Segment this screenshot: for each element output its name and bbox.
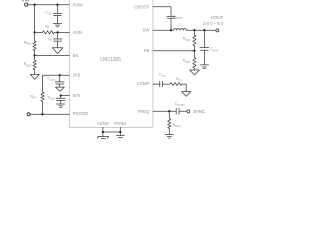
wire COMP bbox=[153, 83, 160, 85]
svg-text:AVIN: AVIN bbox=[73, 30, 82, 35]
wire FREQ bbox=[153, 110, 176, 112]
node PGND junction bbox=[119, 131, 121, 133]
svg-text:IN: IN bbox=[48, 12, 51, 16]
resistor REN1 bbox=[24, 40, 36, 50]
svg-text:C1: C1 bbox=[179, 78, 183, 82]
svg-text:CBOOT: CBOOT bbox=[134, 4, 149, 9]
ground PGND bbox=[116, 136, 124, 138]
ground RFB2 triangle bbox=[190, 70, 200, 75]
svg-text:2V5: 2V5 bbox=[73, 72, 81, 77]
svg-text:OUT: OUT bbox=[213, 48, 219, 52]
svg-text:FRQ: FRQ bbox=[175, 124, 181, 128]
svg-text:AGND: AGND bbox=[97, 121, 109, 126]
wire VIN to PVIN bbox=[28, 4, 70, 6]
node FB junction bbox=[193, 50, 195, 52]
svg-text:PGND: PGND bbox=[114, 121, 126, 126]
svg-text:FREQ: FREQ bbox=[138, 109, 150, 114]
svg-text:5V0: 5V0 bbox=[73, 93, 81, 98]
wire SW bbox=[153, 29, 174, 31]
svg-text:LM21305: LM21305 bbox=[100, 57, 121, 63]
svg-text:VOUT: VOUT bbox=[211, 15, 224, 20]
svg-text:2V5: 2V5 bbox=[50, 78, 55, 82]
capacitor COUT bbox=[200, 30, 219, 65]
capacitor CC1 bbox=[159, 73, 170, 87]
ground CIN bbox=[53, 23, 61, 26]
node PGOOD junction bbox=[41, 113, 43, 115]
ground COUT bbox=[200, 65, 208, 69]
resistor REN2 bbox=[24, 60, 36, 70]
svg-text:SYNC: SYNC bbox=[177, 103, 185, 107]
ground REN2 triangle bbox=[30, 74, 39, 79]
op-amp U1 LM21305 IC body bbox=[69, 0, 152, 127]
resistor RF bbox=[43, 24, 55, 34]
svg-text:FB2: FB2 bbox=[185, 60, 190, 64]
wire RF to AVIN bbox=[54, 31, 69, 33]
terminal VIN bbox=[22, 0, 29, 6]
node C2V5 junction bbox=[59, 74, 61, 76]
node rail top junction bbox=[33, 4, 35, 6]
capacitor CF bbox=[48, 32, 62, 47]
node RFB1 junction bbox=[193, 29, 195, 31]
node COUT junction bbox=[203, 29, 205, 31]
wire VIN rail down bbox=[34, 5, 36, 41]
ground CF triangle bbox=[52, 48, 62, 54]
wire PGOOD bbox=[30, 113, 69, 115]
node CF junction bbox=[56, 31, 58, 33]
capacitor CSYNC bbox=[175, 102, 187, 114]
wire RC1 to ground bbox=[182, 84, 186, 92]
svg-text:PG: PG bbox=[33, 96, 37, 100]
terminal VOUT bbox=[203, 15, 224, 32]
resistor RPG bbox=[30, 92, 44, 102]
svg-text:C1: C1 bbox=[162, 74, 166, 78]
wire RPG to PGOOD bbox=[42, 102, 44, 115]
capacitor C5V0 bbox=[48, 95, 66, 104]
svg-text:EN: EN bbox=[73, 53, 79, 58]
node CIN junction bbox=[56, 4, 58, 6]
wire rail to RF bbox=[35, 31, 43, 33]
resistor RFB1 bbox=[183, 30, 196, 51]
ground COMP triangle bbox=[182, 92, 191, 97]
node AVIN rail junction bbox=[33, 31, 35, 33]
svg-text:PGOOD: PGOOD bbox=[73, 111, 89, 116]
wire 5V0 bbox=[61, 95, 70, 97]
svg-text:L: L bbox=[180, 22, 182, 26]
capacitor CIN bbox=[45, 5, 62, 24]
ground C5V0 bbox=[57, 104, 65, 108]
ground RFRQ bbox=[165, 135, 173, 139]
resistor RFRQ bbox=[168, 111, 181, 134]
capacitor C2V5 bbox=[48, 75, 65, 87]
terminal SYNC bbox=[187, 109, 205, 114]
terminal PGOOD bbox=[27, 113, 30, 116]
wire REN2 to ground bbox=[34, 70, 36, 75]
wire L to VOUT bbox=[186, 29, 216, 31]
wire PGND stub bbox=[119, 127, 121, 135]
svg-text:EN2: EN2 bbox=[26, 63, 32, 67]
svg-text:SW: SW bbox=[143, 27, 150, 32]
wire CBOOT bbox=[153, 7, 171, 17]
ground C2V5 triangle bbox=[56, 87, 65, 91]
svg-text:PVIN: PVIN bbox=[73, 2, 83, 7]
svg-text:COMP: COMP bbox=[137, 81, 150, 86]
svg-text:EN1: EN1 bbox=[26, 42, 32, 46]
ground AGND bbox=[97, 137, 108, 139]
wire FB bbox=[153, 50, 195, 52]
node SW junction bbox=[170, 29, 172, 31]
node FREQ junction bbox=[168, 110, 170, 112]
svg-text:FB: FB bbox=[144, 48, 150, 53]
node AGND junction bbox=[102, 131, 104, 133]
capacitor CBOOT bbox=[167, 15, 183, 31]
wire 2V5 bbox=[43, 75, 70, 92]
svg-text:FB1: FB1 bbox=[185, 38, 190, 42]
resistor RFB2 bbox=[183, 51, 196, 70]
wire EN bbox=[35, 54, 70, 56]
node C5V0 junction bbox=[60, 94, 62, 96]
resistor RC1 bbox=[170, 77, 182, 86]
wire AGND-PGND bbox=[103, 131, 120, 133]
svg-text:SYNC: SYNC bbox=[193, 109, 205, 114]
inductor L bbox=[174, 22, 187, 30]
svg-text:BOOT: BOOT bbox=[175, 16, 183, 20]
svg-text:5V0: 5V0 bbox=[50, 97, 55, 101]
wire AGND stub bbox=[102, 127, 104, 136]
wire REN1 to EN bbox=[34, 50, 36, 60]
node EN junction bbox=[33, 54, 35, 56]
svg-text:VIN: VIN bbox=[22, 0, 29, 3]
svg-text:0.6 V – 5 V: 0.6 V – 5 V bbox=[203, 21, 224, 26]
